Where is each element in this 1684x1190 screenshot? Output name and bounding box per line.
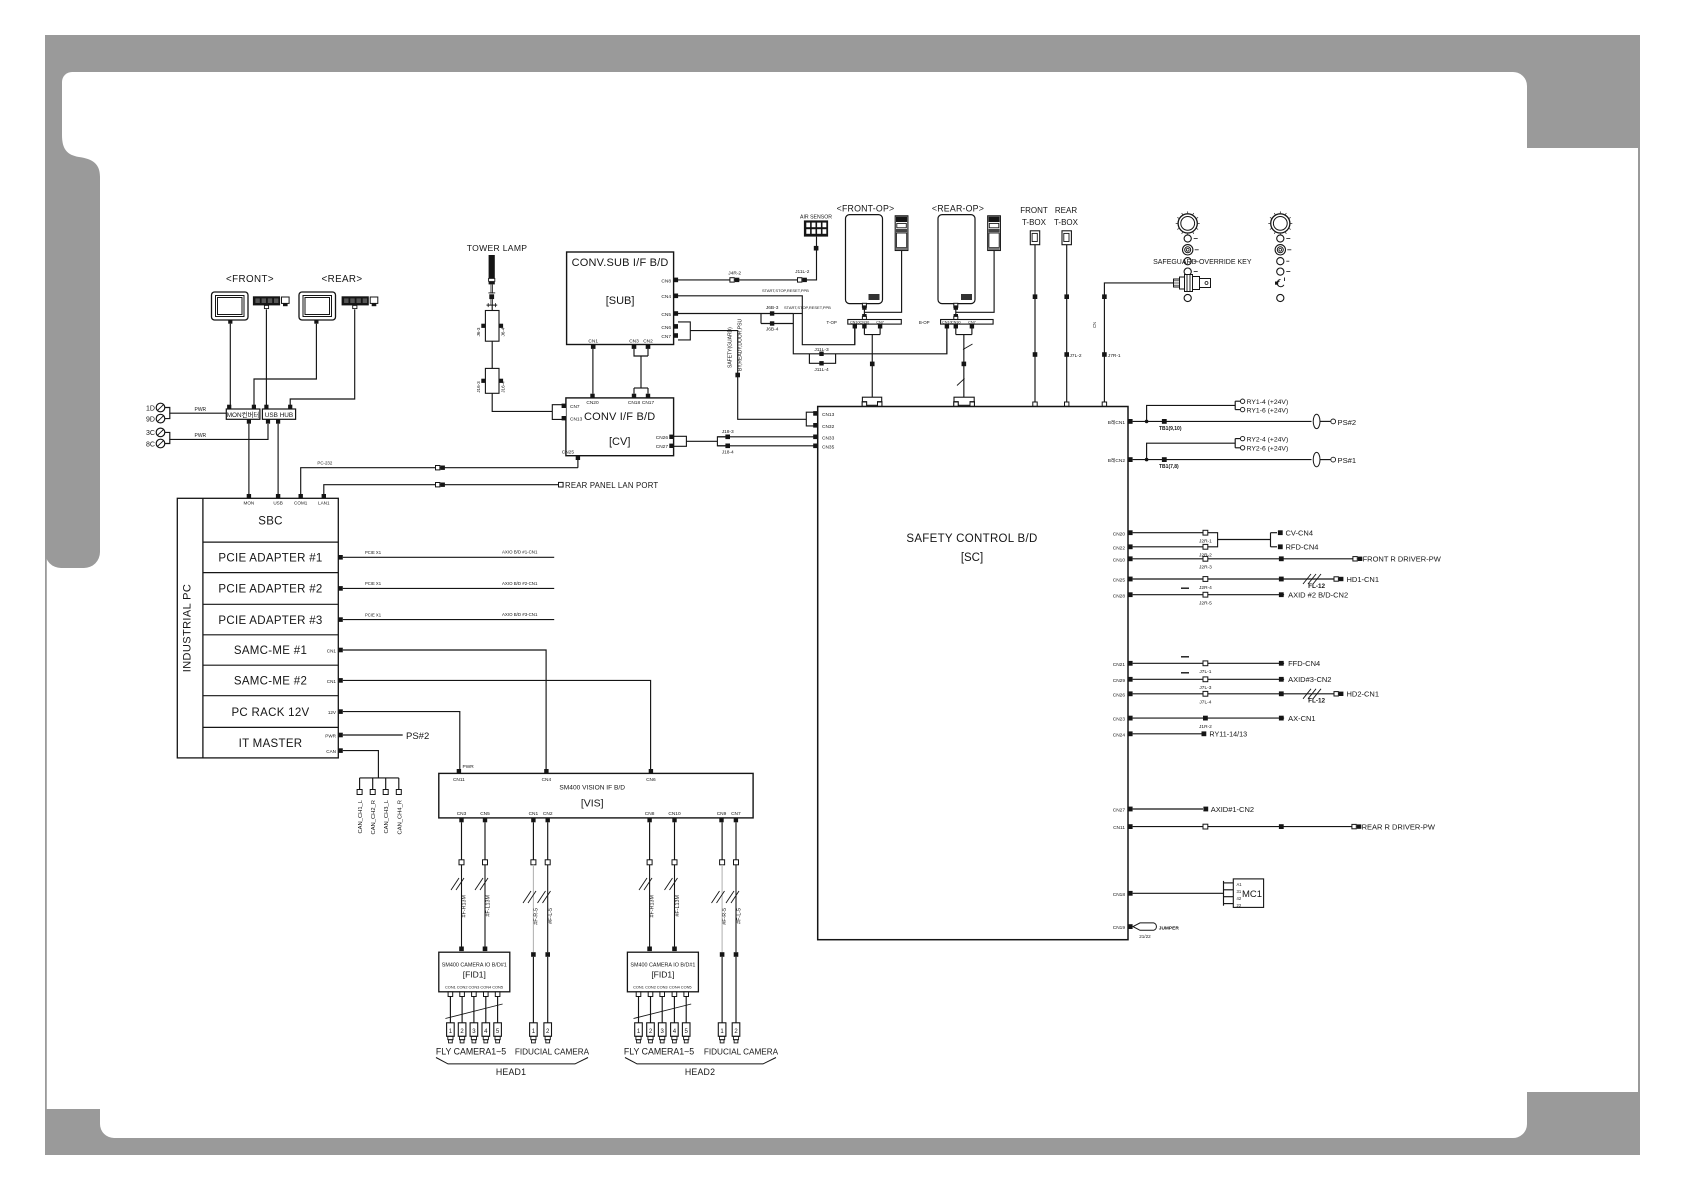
svg-text:CN30: CN30 [951, 320, 961, 324]
svg-text:21/22: 21/22 [1139, 934, 1151, 939]
svg-text:CAN: CAN [326, 749, 336, 754]
svg-text:CON5: CON5 [681, 985, 692, 990]
svg-text:CN3: CN3 [457, 811, 467, 817]
svg-text:AXIO B/D #1-CN1: AXIO B/D #1-CN1 [502, 550, 538, 555]
svg-text:CON5: CON5 [492, 985, 503, 990]
svg-text:[CV]: [CV] [609, 436, 630, 448]
svg-text:CN7: CN7 [731, 811, 741, 817]
svg-text:CN32: CN32 [822, 424, 835, 430]
svg-text:J4R-2: J4R-2 [728, 271, 741, 277]
svg-text:LAN1: LAN1 [318, 501, 330, 506]
svg-text:CN9: CN9 [717, 811, 727, 817]
svg-text:AXID #2 B/D-CN2: AXID #2 B/D-CN2 [1288, 591, 1348, 600]
svg-text:RY2-4 (+24V): RY2-4 (+24V) [1247, 436, 1289, 443]
svg-text:SM400 CAMERA IO B/D#1: SM400 CAMERA IO B/D#1 [442, 963, 507, 969]
svg-text:SBC: SBC [258, 515, 283, 527]
svg-text:TB1(7,8): TB1(7,8) [1159, 464, 1179, 470]
svg-text:START,STOP,RESET,PPB: START,STOP,RESET,PPB [784, 305, 831, 310]
svg-text:REAR PANEL LAN PORT: REAR PANEL LAN PORT [565, 481, 658, 490]
svg-text:AIR SENSOR: AIR SENSOR [800, 215, 832, 221]
svg-text:CN22: CN22 [1113, 545, 1126, 551]
svg-text:CN11: CN11 [1113, 825, 1125, 831]
svg-text:CN26: CN26 [1113, 692, 1126, 698]
svg-text:JUMPER: JUMPER [1159, 925, 1180, 931]
svg-text:TB1(9,10): TB1(9,10) [1159, 426, 1182, 432]
svg-text:PC RACK 12V: PC RACK 12V [231, 707, 309, 719]
svg-text:CONV I/F B/D: CONV I/F B/D [584, 411, 655, 423]
svg-text:CN35: CN35 [822, 444, 835, 450]
svg-text:CN6: CN6 [646, 777, 656, 783]
svg-text:1D: 1D [146, 405, 155, 412]
svg-text:J18-4: J18-4 [722, 449, 734, 455]
svg-text:PS#2: PS#2 [406, 731, 429, 742]
svg-text:12V: 12V [328, 710, 337, 715]
svg-text:J7L-1: J7L-1 [1199, 669, 1211, 675]
svg-text:#F-L13M: #F-L13M [486, 894, 492, 916]
svg-text:CON4: CON4 [669, 985, 681, 990]
svg-text:MON컨버터: MON컨버터 [227, 410, 260, 419]
svg-text:T-BOX: T-BOX [1022, 218, 1047, 227]
svg-text:CON4: CON4 [480, 985, 492, 990]
svg-text:MC1: MC1 [1242, 889, 1262, 900]
svg-text:CV-CN4: CV-CN4 [1286, 529, 1314, 538]
svg-text:CON2: CON2 [645, 985, 656, 990]
svg-text:CN4: CN4 [542, 777, 552, 783]
svg-text:FLY CAMERA1~5: FLY CAMERA1~5 [436, 1047, 506, 1057]
svg-text:TOWER LAMP: TOWER LAMP [467, 243, 528, 253]
svg-text:CN7: CN7 [661, 334, 671, 340]
svg-text:CN: CN [1092, 322, 1097, 328]
svg-text:8C: 8C [146, 441, 155, 448]
svg-text:PWR: PWR [325, 734, 336, 739]
svg-text:J7L-2: J7L-2 [1070, 353, 1082, 359]
svg-text:CN11: CN11 [453, 777, 465, 783]
svg-text:J6-3: J6-3 [476, 327, 481, 336]
svg-text:CN17: CN17 [642, 400, 655, 406]
svg-text:J11L-4: J11L-4 [814, 367, 829, 373]
svg-text:CN27: CN27 [1113, 808, 1126, 814]
svg-text:AXID#3-CN2: AXID#3-CN2 [1288, 675, 1331, 684]
svg-text:A1: A1 [1237, 882, 1243, 887]
svg-text:HD2-CN1: HD2-CN1 [1347, 690, 1380, 699]
svg-text:FRONT R DRIVER-PW: FRONT R DRIVER-PW [1363, 555, 1442, 564]
svg-text:B레CN2: B레CN2 [1108, 457, 1126, 464]
svg-text:CN5: CN5 [661, 312, 671, 318]
svg-text:<FRONT>: <FRONT> [226, 274, 274, 285]
svg-text:CN1: CN1 [327, 649, 337, 654]
svg-text:B-OP: B-OP [919, 320, 930, 325]
svg-text:CN7: CN7 [570, 404, 580, 410]
svg-text:SAFEGUARD-OVERRIDE KEY: SAFEGUARD-OVERRIDE KEY [1153, 259, 1252, 266]
svg-text:J6B-4: J6B-4 [766, 327, 779, 333]
svg-text:PCIE ADAPTER #3: PCIE ADAPTER #3 [218, 615, 322, 627]
svg-text:CN24: CN24 [1113, 732, 1126, 738]
svg-text:CN2: CN2 [543, 811, 553, 817]
svg-text:#F-L-5: #F-L-5 [548, 908, 554, 924]
svg-text:9D: 9D [146, 416, 155, 423]
svg-text:[FID1]: [FID1] [463, 970, 486, 980]
svg-text:<REAR-OP>: <REAR-OP> [932, 204, 984, 214]
svg-text:FRONT: FRONT [1020, 206, 1048, 215]
svg-text:CN10: CN10 [668, 811, 681, 817]
svg-text:J16-3: J16-3 [476, 381, 481, 393]
svg-text:CAN_CH3_L: CAN_CH3_L [384, 799, 390, 833]
svg-text:FIDUCIAL CAMERA: FIDUCIAL CAMERA [515, 1048, 590, 1057]
svg-text:START,STOP,RESET,PPB: START,STOP,RESET,PPB [762, 288, 809, 293]
svg-text:MON: MON [244, 501, 255, 506]
svg-text:CON3: CON3 [657, 985, 668, 990]
svg-text:CN28: CN28 [1113, 593, 1126, 599]
svg-text:PS#1: PS#1 [1338, 456, 1357, 465]
svg-text:REAR R DRIVER-PW: REAR R DRIVER-PW [1362, 822, 1436, 831]
svg-text:CN6: CN6 [661, 325, 671, 331]
svg-text:CN30: CN30 [860, 320, 870, 324]
svg-text:J2R-3: J2R-3 [1199, 565, 1212, 571]
svg-text:J6B-3: J6B-3 [766, 305, 779, 311]
svg-text:CN20: CN20 [586, 400, 599, 406]
svg-text:PCIE X1: PCIE X1 [365, 581, 382, 586]
svg-text:FFD-CN4: FFD-CN4 [1288, 659, 1320, 668]
svg-text:J2R-5: J2R-5 [1199, 601, 1212, 607]
svg-text:T-OP: T-OP [827, 320, 837, 325]
svg-text:AXIO B/D #2-CN1: AXIO B/D #2-CN1 [502, 581, 538, 586]
svg-text:CN10: CN10 [850, 320, 860, 324]
svg-text:FIDUCIAL CAMERA: FIDUCIAL CAMERA [704, 1048, 779, 1057]
svg-text:COM1: COM1 [294, 501, 308, 506]
svg-text:#F-L13M: #F-L13M [675, 894, 681, 916]
svg-text:REAR: REAR [1055, 206, 1077, 215]
svg-text:RFD-CN4: RFD-CN4 [1286, 543, 1319, 552]
svg-text:FL-12: FL-12 [1308, 583, 1325, 590]
svg-text:22: 22 [1237, 903, 1242, 908]
svg-text:J11L-3: J11L-3 [814, 347, 829, 353]
svg-text:RY1-6 (+24V): RY1-6 (+24V) [1247, 407, 1289, 414]
svg-text:BY,READY,DOOR,PSU: BY,READY,DOOR,PSU [738, 319, 744, 371]
svg-text:CON3: CON3 [468, 985, 479, 990]
svg-text:J2R-1: J2R-1 [1199, 539, 1212, 545]
svg-text:CN25: CN25 [562, 450, 575, 456]
svg-text:PCIE ADAPTER #1: PCIE ADAPTER #1 [218, 553, 322, 565]
svg-text:J7L-4: J7L-4 [1199, 700, 1211, 706]
svg-text:B레CN1: B레CN1 [1108, 419, 1126, 426]
svg-text:HEAD1: HEAD1 [496, 1067, 526, 1077]
svg-text:PWR: PWR [463, 764, 475, 770]
svg-text:<FRONT-OP>: <FRONT-OP> [837, 204, 895, 214]
svg-text:AXID#1-CN2: AXID#1-CN2 [1211, 805, 1254, 814]
svg-text:FL-12: FL-12 [1308, 698, 1325, 705]
svg-text:J2R-4: J2R-4 [1199, 585, 1212, 591]
svg-text:#F-R13M: #F-R13M [650, 894, 656, 917]
svg-text:CN18: CN18 [628, 400, 641, 406]
svg-text:[SC]: [SC] [961, 552, 983, 564]
svg-text:CN7: CN7 [968, 320, 976, 324]
svg-text:USB: USB [273, 501, 282, 506]
svg-text:CN8: CN8 [661, 278, 671, 284]
svg-text:CN1: CN1 [529, 811, 539, 817]
svg-text:T-BOX: T-BOX [1054, 218, 1079, 227]
svg-text:CN7: CN7 [876, 320, 884, 324]
svg-text:SAMC-ME #2: SAMC-ME #2 [234, 676, 307, 688]
svg-text:PWR: PWR [195, 407, 207, 413]
svg-text:J2R-2: J2R-2 [1199, 553, 1212, 559]
svg-text:CN3: CN3 [629, 339, 639, 345]
svg-text:RY2-6 (+24V): RY2-6 (+24V) [1247, 446, 1289, 453]
svg-text:INDUSTRIAL PC: INDUSTRIAL PC [182, 584, 194, 673]
svg-text:CN20: CN20 [1113, 531, 1126, 537]
svg-text:J7L-3: J7L-3 [1199, 685, 1211, 691]
svg-text:HD1-CN1: HD1-CN1 [1347, 575, 1380, 584]
svg-text:CAN_CH4_R: CAN_CH4_R [397, 800, 403, 834]
svg-text:CN4: CN4 [661, 294, 671, 300]
svg-text:CON2: CON2 [457, 985, 468, 990]
svg-text:#F-R-5: #F-R-5 [722, 908, 728, 925]
svg-text:PCIE X1: PCIE X1 [365, 612, 382, 617]
svg-text:RY11-14/13: RY11-14/13 [1209, 730, 1247, 739]
svg-text:PS#2: PS#2 [1338, 418, 1357, 427]
svg-text:CN13: CN13 [570, 417, 583, 423]
svg-text:J11L-2: J11L-2 [795, 269, 810, 275]
svg-text:SAFETY(GUARD): SAFETY(GUARD) [728, 327, 734, 368]
svg-text:J18-3: J18-3 [722, 429, 734, 435]
svg-text:CN1: CN1 [327, 679, 337, 684]
svg-text:CN1: CN1 [588, 339, 598, 345]
svg-text:CN8: CN8 [645, 811, 655, 817]
svg-text:[FID1]: [FID1] [651, 970, 674, 980]
svg-text:<REAR>: <REAR> [321, 274, 362, 285]
svg-text:CN2: CN2 [643, 339, 653, 345]
svg-text:#F-L-5: #F-L-5 [737, 908, 743, 924]
svg-text:CAN_CH2_R: CAN_CH2_R [371, 800, 377, 834]
svg-text:CN27: CN27 [656, 444, 669, 450]
svg-text:CAN_CH1_L: CAN_CH1_L [358, 799, 364, 833]
svg-text:CN19: CN19 [1113, 925, 1126, 931]
svg-text:AXIO B/D #3-CN1: AXIO B/D #3-CN1 [502, 612, 538, 617]
svg-text:CN13: CN13 [822, 412, 835, 418]
svg-text:FLY CAMERA1~5: FLY CAMERA1~5 [624, 1047, 694, 1057]
svg-text:SAMC-ME #1: SAMC-ME #1 [234, 645, 307, 657]
svg-text:PCIE ADAPTER #2: PCIE ADAPTER #2 [218, 584, 322, 596]
svg-text:#F-R-5: #F-R-5 [534, 908, 540, 925]
svg-text:PWR: PWR [195, 433, 207, 439]
svg-text:CN33: CN33 [822, 435, 835, 441]
svg-text:CN25: CN25 [1113, 578, 1126, 584]
svg-text:J16-4: J16-4 [501, 381, 506, 393]
svg-text:3C: 3C [146, 430, 155, 437]
svg-text:[SUB]: [SUB] [606, 295, 635, 307]
svg-text:USB HUB: USB HUB [265, 412, 293, 419]
svg-text:CN5: CN5 [480, 811, 490, 817]
svg-text:PC-232: PC-232 [317, 460, 332, 465]
svg-text:SM400 CAMERA IO B/D#1: SM400 CAMERA IO B/D#1 [630, 963, 695, 969]
svg-text:J7R-1: J7R-1 [1108, 353, 1121, 359]
svg-text:CON1: CON1 [445, 985, 456, 990]
svg-text:CN10: CN10 [1113, 557, 1126, 563]
svg-text:RY1-4 (+24V): RY1-4 (+24V) [1247, 399, 1289, 406]
svg-text:CN26: CN26 [656, 435, 669, 441]
svg-text:HEAD2: HEAD2 [685, 1067, 715, 1077]
svg-text:CN23: CN23 [1113, 717, 1126, 723]
svg-text:CN21: CN21 [1113, 662, 1126, 668]
svg-text:SAFETY CONTROL B/D: SAFETY CONTROL B/D [906, 533, 1037, 545]
svg-text:[VIS]: [VIS] [581, 798, 604, 810]
svg-text:#F-R13M: #F-R13M [462, 894, 468, 917]
svg-text:AX-CN1: AX-CN1 [1288, 714, 1316, 723]
svg-text:CN18: CN18 [1113, 892, 1126, 898]
svg-text:PCIE X1: PCIE X1 [365, 550, 382, 555]
svg-text:SM400 VISION IF B/D: SM400 VISION IF B/D [559, 785, 625, 792]
svg-text:IT MASTER: IT MASTER [239, 738, 303, 750]
svg-text:J6-4: J6-4 [501, 327, 506, 336]
svg-text:CONV.SUB I/F B/D: CONV.SUB I/F B/D [572, 257, 669, 269]
svg-text:CN29: CN29 [1113, 678, 1126, 684]
svg-text:CON1: CON1 [633, 985, 644, 990]
